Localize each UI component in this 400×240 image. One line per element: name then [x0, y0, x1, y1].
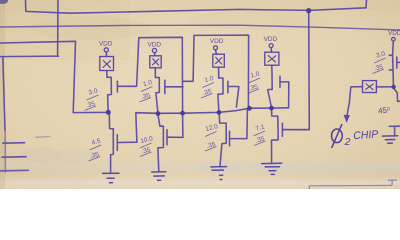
svg-text:CHIP: CHIP [353, 129, 380, 143]
svg-text:VDD: VDD [99, 41, 113, 48]
svg-text:VDD: VDD [210, 38, 224, 45]
svg-text:2: 2 [344, 136, 351, 148]
svg-text:VDD: VDD [264, 36, 278, 43]
svg-text:VDD: VDD [388, 30, 400, 37]
svg-text:VDD: VDD [148, 41, 162, 48]
